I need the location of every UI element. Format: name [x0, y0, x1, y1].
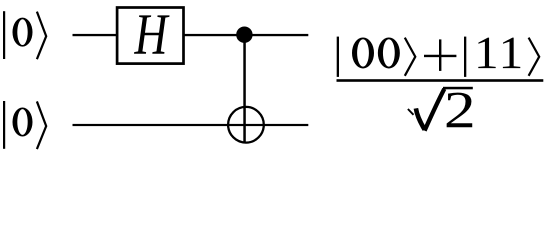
ket |0> bottom input: rangle [37, 101, 46, 149]
radical descending stroke [416, 108, 425, 129]
wire top-left segment [73, 34, 117, 36]
ket |0> top input: rangle [37, 12, 46, 60]
numerator plus sign horizontal bar [424, 55, 456, 57]
numerator 1 #1 [478, 38, 495, 68]
ket |0> bottom input: zero [13, 107, 33, 136]
ket |0> top input: vertical bar [3, 11, 5, 59]
radical ascending stroke [425, 89, 445, 131]
CNOT control dot [236, 27, 252, 43]
numerator plus sign vertical stem [439, 39, 441, 71]
wire bottom segment [73, 124, 309, 126]
numerator 0 #2 [378, 37, 400, 68]
numerator rangle #2 [529, 38, 540, 76]
wire top-right segment [184, 34, 308, 36]
numerator rangle #1 [405, 38, 416, 76]
CNOT target circle [228, 107, 264, 143]
denominator 2 [447, 93, 473, 128]
Hadamard gate box [117, 8, 183, 64]
radical overbar [443, 87, 473, 90]
numerator 1 #2 [503, 38, 520, 68]
numerator lvert #2 [464, 37, 466, 77]
radical lead-in tick [408, 109, 414, 115]
fraction bar [337, 79, 544, 82]
CNOT vertical link wire [243, 35, 246, 143]
Hadamard gate label H [134, 15, 169, 53]
ket |0> bottom input: vertical bar [3, 101, 5, 149]
numerator 0 #1 [352, 37, 374, 68]
ket |0> top input: zero [13, 18, 33, 47]
numerator lvert #1 [337, 37, 339, 77]
